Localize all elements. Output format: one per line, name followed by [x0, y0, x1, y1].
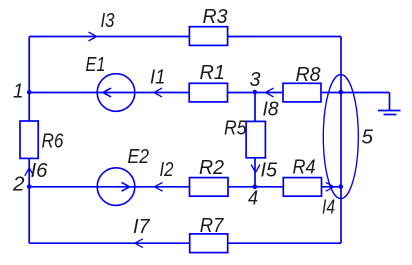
resistor R5 — [246, 121, 265, 157]
node 4 junction dot — [253, 185, 258, 190]
resistor R4 — [283, 178, 321, 197]
wire ground drop — [389, 93, 391, 111]
resistor R6 — [20, 121, 38, 158]
resistor R7 — [190, 234, 228, 253]
loop contour 5 ellipse — [323, 75, 358, 199]
arrow I4 — [326, 182, 334, 191]
svg-text:4: 4 — [248, 188, 258, 210]
node 2 junction dot — [27, 184, 32, 189]
svg-text:3: 3 — [250, 69, 261, 91]
wire bottom horizontal — [29, 242, 341, 244]
svg-text:R8: R8 — [296, 64, 321, 86]
svg-text:I4: I4 — [322, 197, 335, 219]
resistor R2 — [190, 178, 229, 197]
svg-text:5: 5 — [362, 127, 374, 149]
arrow I1 — [154, 88, 162, 97]
node 3 junction dot — [253, 90, 258, 95]
svg-text:I8: I8 — [263, 99, 279, 121]
wire node3-node4 vertical branch — [254, 93, 256, 187]
svg-text:R7: R7 — [200, 215, 224, 237]
svg-text:R5: R5 — [224, 118, 247, 140]
arrow I7 — [135, 239, 143, 248]
svg-text:R3: R3 — [203, 6, 228, 28]
node 1 junction dot — [27, 90, 32, 95]
wire top horizontal — [29, 36, 341, 38]
wire row node1-ground horizontal — [29, 92, 389, 94]
svg-text:I2: I2 — [160, 159, 174, 181]
svg-text:I3: I3 — [101, 10, 115, 32]
junction dot right bottom — [339, 184, 344, 189]
arrow I5 — [251, 165, 260, 173]
wire left vertical — [28, 37, 30, 244]
ground — [378, 111, 401, 115]
wire row node2-node4 horizontal — [29, 186, 341, 188]
resistor R3 — [189, 27, 227, 46]
source E2 — [97, 168, 135, 206]
svg-text:R4: R4 — [293, 157, 316, 179]
svg-text:E2: E2 — [128, 146, 150, 168]
arrow I8 — [266, 88, 274, 97]
resistor R8 — [283, 83, 321, 102]
svg-text:I5: I5 — [261, 160, 278, 182]
svg-text:R1: R1 — [200, 62, 226, 84]
wire right vertical — [340, 37, 342, 244]
svg-text:E1: E1 — [86, 54, 106, 76]
arrow I3 — [89, 32, 97, 41]
svg-text:I1: I1 — [150, 67, 166, 89]
junction dot right top — [339, 90, 344, 95]
source E1 — [97, 74, 135, 112]
svg-text:R6: R6 — [42, 131, 65, 153]
svg-text:R2: R2 — [199, 157, 224, 179]
svg-text:I6: I6 — [31, 160, 49, 182]
svg-text:2: 2 — [12, 174, 25, 196]
resistor R1 — [189, 83, 227, 102]
svg-text:I7: I7 — [133, 216, 150, 238]
svg-text:1: 1 — [13, 81, 24, 103]
arrow I2 — [155, 182, 163, 191]
arrow I6 — [25, 168, 34, 176]
